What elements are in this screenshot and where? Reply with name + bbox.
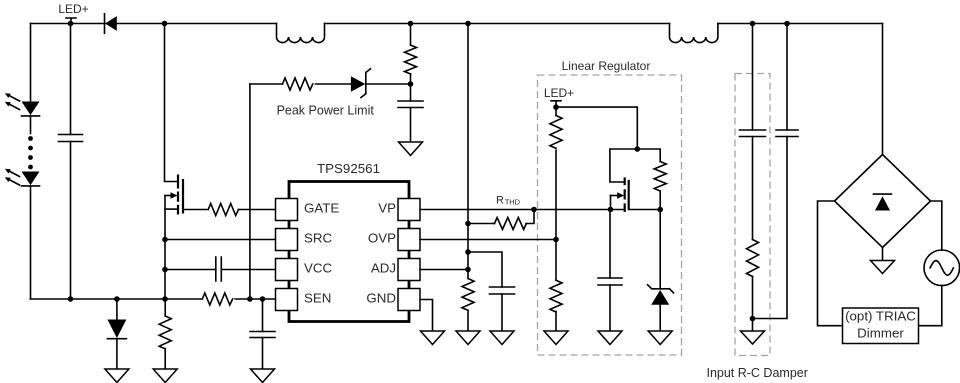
svg-text:VCC: VCC [304,260,333,275]
svg-text:Dimmer: Dimmer [857,326,904,341]
svg-text:THD: THD [505,197,521,206]
svg-text:GND: GND [366,290,396,305]
svg-text:TPS92561: TPS92561 [317,161,380,176]
svg-text:R: R [496,195,504,207]
svg-text:LED+: LED+ [544,86,574,100]
svg-text:(opt) TRIAC: (opt) TRIAC [845,309,916,324]
svg-text:OVP: OVP [368,230,396,245]
svg-text:Linear Regulator: Linear Regulator [562,59,651,73]
svg-text:SRC: SRC [304,230,333,245]
svg-text:LED+: LED+ [58,2,88,16]
svg-text:Input R-C Damper: Input R-C Damper [706,366,807,380]
svg-text:GATE: GATE [304,200,339,215]
svg-text:VP: VP [378,200,396,215]
svg-text:Peak Power Limit: Peak Power Limit [277,104,375,118]
svg-text:ADJ: ADJ [371,260,396,275]
svg-text:SEN: SEN [304,290,331,305]
